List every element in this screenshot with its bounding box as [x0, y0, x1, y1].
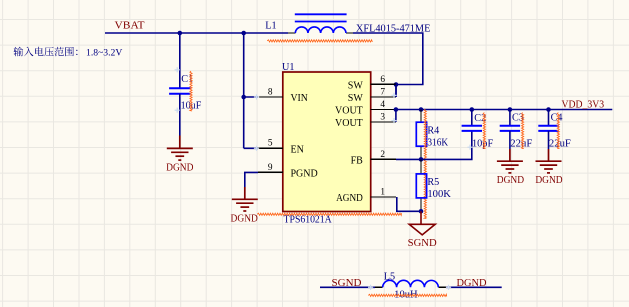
- wire PGND: [245, 172, 258, 187]
- svg-text:R4: R4: [427, 125, 439, 136]
- wire L1 to SW: [353, 33, 423, 97]
- svg-text:100K: 100K: [427, 189, 451, 200]
- wire VOUT stub: [395, 110, 397, 123]
- text annotation input voltage range: [14, 47, 123, 59]
- svg-text:22uF: 22uF: [549, 138, 571, 149]
- svg-text:316K: 316K: [427, 137, 448, 148]
- svg-text:3: 3: [380, 112, 385, 122]
- svg-text:DGND: DGND: [535, 175, 563, 186]
- IC U1 body: [283, 72, 371, 212]
- pin 9 PGND: [258, 163, 318, 180]
- svg-text:DGND: DGND: [166, 162, 194, 173]
- inductor L5: [375, 272, 446, 301]
- wire VBAT rail: [105, 32, 288, 34]
- junction R4 tap: [419, 107, 424, 112]
- junction C2 tap: [470, 107, 475, 112]
- svg-text:AGND: AGND: [336, 193, 363, 204]
- ERC squiggle C3: [522, 113, 524, 149]
- ground DGND at PGND: [232, 187, 258, 211]
- pin 2 FB: [351, 150, 396, 167]
- svg-text:DGND: DGND: [231, 213, 259, 224]
- svg-text:L1: L1: [265, 21, 276, 32]
- svg-text:6: 6: [380, 75, 385, 85]
- junction AGND node: [419, 209, 424, 214]
- ground DGND at C3: [497, 149, 523, 173]
- ERC squiggle under L1: [267, 40, 372, 42]
- connection markers: [175, 67, 473, 290]
- svg-text:SGND: SGND: [408, 238, 437, 249]
- pin 6 SW: [348, 75, 396, 92]
- capacitor C1: [169, 74, 202, 112]
- pin 4 VOUT: [335, 100, 396, 117]
- ground DGND at C4: [536, 149, 562, 173]
- wire FB: [396, 158, 421, 160]
- wire C1 top: [179, 33, 181, 88]
- svg-text:1: 1: [380, 187, 385, 197]
- ERC squiggle C2: [483, 113, 485, 149]
- svg-text:L5: L5: [384, 272, 395, 283]
- wire VOUT rail: [396, 109, 612, 111]
- wire SGND side: [320, 286, 375, 288]
- svg-text:VOUT: VOUT: [335, 118, 363, 129]
- svg-text:VOUT: VOUT: [335, 106, 363, 117]
- svg-text:EN: EN: [291, 144, 304, 155]
- svg-text:SW: SW: [348, 80, 364, 91]
- svg-text:SGND: SGND: [332, 278, 362, 289]
- wire AGND: [397, 197, 421, 211]
- capacitor C4: [538, 110, 571, 150]
- junction FB node: [419, 157, 424, 162]
- pin 7 SW: [348, 87, 396, 104]
- svg-text:VBAT: VBAT: [115, 21, 146, 32]
- svg-text:SW: SW: [348, 93, 364, 104]
- ERC squiggle C4: [557, 113, 559, 149]
- wire C2 bottom to FB: [421, 131, 472, 160]
- pin 1 AGND: [336, 187, 396, 204]
- capacitor C3: [500, 110, 533, 150]
- svg-text:R5: R5: [427, 177, 439, 188]
- junction VBAT-C1: [178, 31, 183, 36]
- junction VIN tap: [241, 95, 246, 100]
- junction VOUT node: [394, 107, 399, 112]
- svg-text:TPS61021A: TPS61021A: [284, 215, 333, 226]
- ERC squiggle under U1: [257, 213, 401, 215]
- power port SGND: [409, 211, 435, 235]
- svg-text:9: 9: [268, 163, 273, 173]
- svg-text:FB: FB: [351, 155, 364, 166]
- wire C1 bottom: [179, 94, 181, 136]
- svg-text:7: 7: [380, 87, 385, 97]
- resistor R4: [416, 110, 448, 160]
- inductor L1: [265, 14, 430, 34]
- pin 8 VIN: [258, 87, 308, 104]
- wire SW2 stub: [395, 85, 397, 98]
- svg-text:VIN: VIN: [291, 93, 308, 104]
- svg-text:PGND: PGND: [291, 168, 318, 179]
- ERC squiggle R column: [424, 109, 426, 219]
- pin 5 EN: [258, 139, 304, 156]
- svg-text:2: 2: [380, 150, 385, 160]
- junction SW node: [394, 82, 399, 87]
- svg-text:C4: C4: [551, 113, 563, 124]
- svg-text:VDD_3V3: VDD_3V3: [562, 100, 605, 111]
- ERC squiggle under L5: [368, 294, 446, 296]
- svg-text:U1: U1: [282, 62, 294, 73]
- junction C3 tap: [508, 107, 513, 112]
- wire DGND side: [446, 286, 502, 288]
- capacitor C2: [462, 110, 494, 150]
- svg-text:4: 4: [380, 100, 385, 110]
- junction C4 tap: [546, 107, 551, 112]
- svg-text:8: 8: [268, 87, 273, 97]
- pin 3 VOUT: [335, 112, 396, 129]
- resistor R5: [416, 159, 451, 211]
- svg-text:5: 5: [268, 139, 273, 149]
- svg-text:1.8~3.2V: 1.8~3.2V: [86, 48, 122, 58]
- ERC squiggle at C1: [190, 71, 192, 111]
- ground DGND at C1: [167, 136, 193, 161]
- junction VBAT-VIN: [241, 31, 246, 36]
- wire VIN-EN feed: [244, 33, 258, 148]
- svg-text:DGND: DGND: [457, 278, 487, 289]
- svg-text:DGND: DGND: [497, 175, 525, 186]
